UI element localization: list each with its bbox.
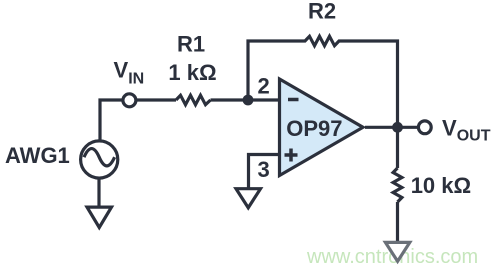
node junction dot (output) xyxy=(392,122,403,133)
op-amp plus input sign xyxy=(285,149,298,162)
ground (op-amp pin 3) xyxy=(236,189,261,208)
wire: R1 to op-amp pin 2 (through node) xyxy=(211,98,280,101)
wire: op-amp output to VOUT terminal xyxy=(365,126,417,129)
svg-text:R1: R1 xyxy=(177,31,205,56)
svg-text:10 kΩ: 10 kΩ xyxy=(411,173,471,198)
ground (below AWG1) xyxy=(87,207,112,227)
svg-text:OP97: OP97 xyxy=(286,116,342,141)
wire: 10k resistor to ground xyxy=(396,202,399,241)
wire: op-amp pin 3 to ground xyxy=(249,155,280,188)
AWG1 source circle xyxy=(81,141,118,178)
svg-text:3: 3 xyxy=(257,157,269,182)
wire: VIN terminal to R1 xyxy=(137,98,176,101)
resistor 10 kOhm zigzag (vertical) xyxy=(393,168,402,202)
ground (bottom right, grey, over watermark) xyxy=(385,242,409,261)
svg-text:R2: R2 xyxy=(308,0,336,23)
op-amp minus input sign xyxy=(288,98,299,102)
node VOUT terminal (open circle) xyxy=(418,121,431,134)
svg-text:VIN: VIN xyxy=(114,58,145,88)
svg-text:1 kΩ: 1 kΩ xyxy=(168,60,216,85)
svg-text:2: 2 xyxy=(257,74,269,99)
node VIN terminal (open circle) xyxy=(123,94,136,107)
wire: input corner, VIN terminal to AWG1 source xyxy=(100,100,123,141)
node junction dot (R1 / pin2 / R2) xyxy=(243,95,254,106)
wire: output node down to 10k resistor xyxy=(396,127,399,168)
svg-text:AWG1: AWG1 xyxy=(5,143,70,168)
resistor R1 zigzag xyxy=(176,95,211,104)
wire: R2 feedback loop with zigzag xyxy=(248,36,398,127)
wire: AWG1 to ground xyxy=(97,178,100,206)
op-amp U1 triangle xyxy=(280,79,364,176)
sine wave inside AWG1 xyxy=(84,149,115,166)
svg-text:VOUT: VOUT xyxy=(442,115,491,144)
